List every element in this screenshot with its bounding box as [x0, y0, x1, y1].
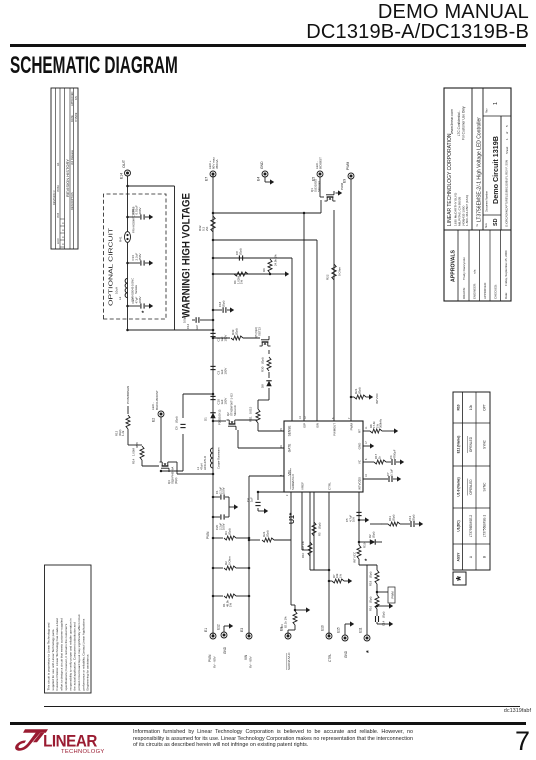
svg-text:(Opt): (Opt)	[371, 532, 375, 538]
svg-text:DESCRIPTION: DESCRIPTION	[70, 192, 74, 210]
resistor R39	[231, 336, 243, 340]
wire	[183, 393, 213, 395]
capacitor C20	[213, 516, 220, 518]
svg-text:B: B	[482, 556, 486, 558]
wire	[243, 337, 260, 339]
svg-text:10k: 10k	[469, 405, 473, 411]
svg-text:FRN-H530HPCS09W8: FRN-H530HPCS09W8	[132, 206, 136, 233]
svg-text:R16: R16	[369, 605, 373, 611]
resistor RS1	[256, 409, 260, 423]
svg-text:HC9-470-R: HC9-470-R	[203, 456, 207, 470]
footer disclaimer	[133, 729, 413, 749]
svg-text:GND: GND	[344, 650, 348, 658]
svg-text:0805: 0805	[135, 442, 139, 448]
svg-text:15: 15	[280, 428, 283, 431]
svg-text:E15: E15	[337, 627, 341, 633]
wire	[268, 388, 270, 400]
wire	[228, 497, 230, 517]
svg-text:R41: R41	[119, 236, 123, 242]
terminal E11	[364, 635, 370, 641]
svg-text:RS1: RS1	[249, 416, 253, 422]
svg-text:E11: E11	[359, 627, 363, 633]
capacitor C17	[128, 305, 141, 307]
svg-text:C9: C9	[175, 426, 179, 430]
capacitor C12	[200, 319, 213, 321]
svg-text:PCB: PCB	[57, 213, 60, 218]
diode D1	[210, 413, 215, 418]
transistor Q1	[327, 196, 334, 198]
ground	[350, 621, 354, 626]
wire	[213, 212, 321, 214]
svg-text:1: 1	[493, 102, 499, 105]
svg-text:17: 17	[365, 441, 368, 444]
wire	[212, 174, 214, 636]
wire	[301, 492, 303, 550]
resistor R42	[211, 216, 215, 232]
ground	[397, 476, 401, 481]
ground	[389, 621, 393, 626]
Linear Technology logo	[10, 726, 122, 758]
svg-text:E9: E9	[343, 179, 347, 183]
svg-text:Rev: Rev	[486, 108, 489, 113]
svg-text:A: A	[469, 555, 473, 558]
resistor R11	[382, 523, 388, 525]
svg-text:R9: R9	[262, 268, 266, 272]
svg-text:www.linear.com: www.linear.com	[450, 109, 454, 134]
wire	[270, 257, 292, 259]
wire	[174, 186, 176, 330]
svg-text:R5: R5	[318, 532, 322, 536]
svg-text:7/15/09: 7/15/09	[74, 112, 78, 122]
resistor R7	[329, 580, 332, 582]
svg-text:Cooper Bussmann: Cooper Bussmann	[217, 447, 221, 469]
resistor R17	[363, 461, 374, 463]
svg-text:*: *	[366, 650, 373, 653]
capacitor C15	[128, 216, 141, 218]
resistor R6	[234, 272, 248, 276]
svg-text:12: 12	[304, 416, 307, 419]
resistor R8	[363, 430, 370, 432]
svg-text:LT3756EMSE-1: LT3756EMSE-1	[482, 515, 486, 538]
capacitor C1	[213, 496, 220, 498]
svg-text:3rd Release: 3rd Release	[70, 149, 74, 165]
capacitor C3	[210, 369, 215, 371]
wire	[359, 519, 365, 521]
svg-text:(Opt): (Opt)	[391, 515, 395, 521]
svg-text:D1: D1	[204, 417, 208, 421]
svg-text:R22: R22	[326, 274, 330, 280]
svg-text:For Customer Use Only: For Customer Use Only	[462, 106, 466, 140]
resistor R9	[268, 259, 272, 273]
capacitor C14	[375, 616, 377, 622]
svg-text:Trudy Raczynski: Trudy Raczynski	[462, 257, 466, 280]
svg-text:(Opt): (Opt)	[235, 328, 239, 335]
node SW	[212, 420, 215, 423]
svg-text:1%: 1%	[229, 602, 233, 607]
svg-text:GND: GND	[358, 442, 362, 450]
resistor R5	[312, 522, 316, 536]
wire	[377, 605, 389, 607]
wire	[238, 419, 259, 421]
capacitor C4	[257, 492, 259, 500]
svg-text:PCBA: PCBA	[57, 185, 60, 192]
svg-text:n/a: n/a	[473, 269, 477, 274]
svg-text:8V - 80V: 8V - 80V	[249, 656, 253, 668]
svg-text:GATE: GATE	[288, 444, 292, 452]
wire	[295, 609, 306, 611]
svg-text:(Opt): (Opt)	[369, 597, 373, 603]
ground	[365, 517, 369, 522]
svg-text:11: 11	[365, 426, 368, 429]
wire	[257, 423, 259, 431]
resistor R2	[213, 567, 223, 569]
svg-text:300kHz: 300kHz	[379, 418, 383, 428]
svg-text:GND: GND	[223, 646, 227, 654]
header rule	[10, 44, 526, 47]
svg-text:E10: E10	[321, 625, 325, 631]
svg-text:0.1uF: 0.1uF	[389, 469, 393, 476]
ground	[400, 459, 404, 464]
capacitor C18	[213, 309, 222, 311]
svg-text:2%: 2%	[205, 226, 209, 231]
svg-text:WARNING! HIGH VOLTAGE: WARNING! HIGH VOLTAGE	[181, 193, 193, 318]
svg-text:*: *	[289, 513, 296, 516]
capacitor C10	[210, 399, 215, 401]
svg-text:1.2k: 1.2k	[121, 430, 125, 436]
svg-text:(Opt): (Opt)	[369, 572, 373, 578]
svg-text:CHECKED:: CHECKED:	[494, 284, 498, 299]
resistor R14	[140, 446, 144, 460]
svg-text:GLP: GLP	[195, 325, 199, 330]
inductor L1	[211, 448, 214, 468]
svg-text:SHDN/UVLO: SHDN/UVLO	[287, 652, 291, 670]
svg-text:E3: E3	[240, 628, 244, 632]
capacitor C6	[391, 459, 393, 465]
svg-text:100V: 100V	[138, 296, 142, 303]
wire	[128, 329, 214, 331]
capacitor C2	[210, 336, 215, 338]
wire	[366, 565, 368, 635]
wire	[268, 350, 270, 354]
svg-text:8: 8	[332, 417, 335, 419]
svg-text:C14: C14	[382, 620, 386, 626]
svg-text:LINEAR TECHNOLOGY CORPORATION: LINEAR TECHNOLOGY CORPORATION	[447, 133, 453, 226]
svg-text:350mA: 350mA	[215, 159, 219, 169]
ground	[363, 445, 370, 447]
asterisk legend	[453, 572, 466, 585]
terminal E5 LED-	[317, 171, 323, 177]
wire	[310, 569, 329, 571]
resistor R18	[375, 570, 379, 584]
wire	[320, 196, 324, 198]
net arrow	[348, 578, 352, 583]
svg-text:4700pF: 4700pF	[392, 449, 396, 459]
ground	[306, 607, 310, 612]
svg-text:TECHNOLOGY: TECHNOLOGY	[61, 749, 105, 755]
wire	[377, 623, 389, 625]
diode D8	[266, 381, 271, 386]
svg-text:PVIN: PVIN	[208, 654, 212, 662]
svg-text:E14: E14	[120, 173, 124, 179]
svg-text:(Opt): (Opt)	[318, 523, 322, 529]
wire	[270, 273, 285, 275]
capacitor C8	[238, 255, 240, 260]
svg-text:Size: Size	[485, 223, 488, 228]
resistor R21a	[351, 396, 354, 398]
svg-text:ISP: ISP	[303, 423, 307, 428]
ground	[149, 260, 153, 265]
svg-text:D8: D8	[261, 384, 265, 388]
svg-text:13: 13	[299, 416, 302, 419]
svg-text:Friday, September 25, 2009: Friday, September 25, 2009	[504, 250, 508, 286]
resistor R3	[213, 537, 223, 539]
svg-text:E12: E12	[217, 624, 221, 630]
wire	[258, 399, 269, 401]
resistor R1	[213, 595, 223, 597]
resistor R10	[308, 542, 312, 556]
wire	[213, 257, 270, 259]
capacitor C5	[356, 515, 361, 517]
svg-text:1M 1%: 1M 1%	[301, 541, 305, 550]
terminal E6 SHDN	[285, 633, 291, 639]
svg-text:Date:: Date:	[504, 292, 508, 299]
svg-text:SHDN/UVLO: SHDN/UVLO	[291, 474, 295, 490]
resistor R13	[127, 406, 129, 414]
svg-text:G:\ORCAD\INCAPTURE\1319B\1319B: G:\ORCAD\INCAPTURE\1319B\1319B (F), REV …	[505, 160, 509, 227]
transistor Q2	[229, 423, 236, 425]
terminal E1 PVIN	[210, 633, 216, 639]
svg-text:OPENLED: OPENLED	[469, 479, 473, 495]
svg-text:Sumida: Sumida	[134, 285, 138, 294]
svg-text:LT3756EMSE-2: LT3756EMSE-2	[469, 515, 473, 538]
svg-text:5: 5	[505, 125, 509, 127]
wire	[288, 629, 295, 631]
svg-text:PVIN: PVIN	[206, 531, 210, 539]
assembly options table	[453, 392, 490, 570]
svg-text:0 Ohm: 0 Ohm	[228, 556, 232, 565]
svg-text:100V: 100V	[222, 487, 226, 494]
svg-text:ENGINEER:: ENGINEER:	[473, 283, 477, 299]
wire	[161, 470, 183, 472]
terminal E3 VIN	[246, 633, 252, 639]
doc number	[0, 708, 531, 714]
ground	[285, 271, 289, 276]
net label PWM	[388, 587, 395, 603]
svg-text:Engineering for assistance.: Engineering for assistance.	[86, 654, 90, 691]
terminal E15 GND	[342, 635, 348, 641]
svg-text:U1-9 (Name): U1-9 (Name)	[457, 477, 461, 496]
ground	[149, 303, 153, 308]
svg-text:ECO: ECO	[57, 239, 60, 244]
svg-text:R14: R14	[132, 458, 136, 464]
wire	[350, 179, 352, 421]
svg-text:(Opt): (Opt)	[239, 248, 243, 255]
svg-text:(Opt): (Opt)	[411, 515, 415, 521]
resistor R16	[375, 595, 379, 609]
title block	[444, 88, 511, 301]
svg-text:BUCK-BOOST: BUCK-BOOST	[155, 390, 159, 410]
transistor Q5	[262, 341, 269, 343]
svg-text:100V: 100V	[223, 398, 227, 405]
section title	[10, 52, 178, 80]
wire	[303, 213, 305, 421]
svg-text:10uH: 10uH	[115, 287, 119, 294]
wire	[171, 461, 178, 463]
terminal E14 OUT	[125, 170, 131, 176]
diode D2	[359, 541, 370, 543]
svg-text:VIN: VIN	[244, 654, 248, 660]
svg-text:SS: SS	[358, 477, 362, 481]
svg-text:6: 6	[365, 458, 368, 460]
wire	[376, 609, 378, 616]
terminal E2	[158, 411, 164, 417]
wire	[213, 420, 226, 422]
wire	[313, 492, 315, 570]
svg-text:ISN: ISN	[316, 423, 320, 428]
svg-text:16: 16	[280, 445, 283, 448]
svg-text:(Opt): (Opt)	[266, 530, 270, 537]
transistor Q4	[162, 465, 169, 467]
svg-text:GND: GND	[260, 161, 264, 169]
wire	[229, 506, 234, 508]
wire	[213, 337, 230, 339]
resistor R4	[293, 611, 297, 625]
page number	[480, 726, 530, 757]
svg-text:APPROVALS: APPROVALS	[451, 250, 457, 282]
svg-text:L2: L2	[118, 296, 122, 300]
svg-text:of: of	[505, 131, 509, 134]
wire	[127, 429, 129, 445]
wire	[160, 417, 162, 462]
svg-text:8V - 80V: 8V - 80V	[213, 656, 217, 668]
resistor R22	[332, 264, 336, 280]
svg-text:1uF: 1uF	[249, 497, 253, 502]
svg-text:82.1k 1%: 82.1k 1%	[283, 616, 287, 628]
wire	[249, 475, 284, 477]
wire	[212, 375, 214, 377]
svg-text:DRAWN:: DRAWN:	[462, 287, 466, 299]
svg-text:OPENLED: OPENLED	[469, 436, 473, 452]
resistor R30	[267, 357, 271, 371]
svg-text:(Opt): (Opt)	[261, 357, 265, 364]
svg-text:SiliconiX: SiliconiX	[317, 181, 321, 192]
wire	[258, 491, 284, 493]
svg-text:RT: RT	[358, 429, 362, 433]
wire	[248, 476, 250, 636]
svg-text:2: 2	[286, 494, 289, 496]
capacitor C9	[180, 427, 185, 429]
terminal E9 PWM	[348, 173, 354, 179]
svg-text:1-800-434-0507 (FAX): 1-800-434-0507 (FAX)	[465, 195, 469, 226]
svg-text:SOT23: SOT23	[257, 327, 261, 336]
svg-text:SYNC: SYNC	[482, 482, 486, 492]
optional circuit box	[104, 194, 167, 319]
svg-text:E7: E7	[205, 177, 209, 181]
svg-text:E4: E4	[257, 177, 261, 181]
ground	[389, 603, 393, 608]
wire	[319, 177, 321, 197]
wire	[302, 549, 310, 551]
wire	[328, 492, 330, 636]
svg-text:(Opt): (Opt)	[228, 528, 232, 535]
svg-text:PWM: PWM	[390, 591, 394, 599]
svg-text:KS: KS	[74, 96, 78, 100]
svg-text:R10: R10	[301, 552, 305, 558]
wire	[212, 405, 214, 407]
wire	[238, 447, 284, 449]
svg-text:E1: E1	[204, 628, 208, 632]
svg-text:100V: 100V	[223, 368, 227, 375]
svg-text:24.9k 1%: 24.9k 1%	[274, 254, 278, 266]
wire	[316, 240, 318, 421]
svg-text:10V: 10V	[352, 517, 356, 522]
capacitor C7	[363, 478, 388, 480]
svg-text:(Opt): (Opt)	[382, 612, 386, 618]
svg-text:REVISION #: REVISION #	[52, 190, 56, 205]
capacitor C13	[410, 521, 412, 527]
svg-text:R10: R10	[457, 404, 461, 410]
svg-text:Demo Circuit 1319B: Demo Circuit 1319B	[491, 136, 500, 204]
svg-text:VREF: VREF	[301, 482, 305, 490]
svg-text:4: 4	[280, 474, 283, 476]
wire	[182, 434, 184, 471]
svg-text:(Opt): (Opt)	[174, 478, 178, 484]
svg-text:R18: R18	[369, 580, 373, 586]
wire	[127, 176, 129, 330]
wire	[141, 460, 143, 466]
terminal E12 GND	[221, 632, 227, 638]
ground	[270, 179, 274, 184]
svg-text:INTVCC: INTVCC	[375, 393, 379, 404]
svg-text:U1(DC): U1(DC)	[457, 520, 461, 531]
svg-text:1: 1	[505, 138, 509, 140]
svg-text:100V: 100V	[222, 523, 226, 530]
wire	[213, 239, 317, 241]
svg-text:LINEAR: LINEAR	[43, 733, 98, 751]
svg-text:OPT: OPT	[482, 404, 486, 411]
wire	[213, 273, 270, 275]
op-amp U1 (LT3756 controller IC)	[284, 421, 363, 492]
capacitor C16	[128, 262, 141, 264]
svg-text:E2: E2	[152, 418, 156, 422]
svg-text:BCKBST: BCKBST	[319, 157, 323, 169]
svg-text:PWMOUT: PWMOUT	[333, 423, 337, 436]
svg-text:*: *	[142, 310, 148, 313]
wire	[367, 564, 377, 566]
svg-text:SD: SD	[493, 218, 499, 226]
wire	[309, 492, 311, 570]
wire	[333, 210, 335, 421]
svg-text:0 Ohm: 0 Ohm	[338, 266, 342, 276]
ground	[264, 508, 268, 513]
svg-text:200V: 200V	[138, 207, 142, 214]
svg-text:OUT: OUT	[122, 159, 126, 168]
svg-text:1.00M: 1.00M	[132, 448, 136, 456]
wire	[44, 706, 520, 708]
svg-text:(Opt): (Opt)	[175, 416, 179, 423]
wire	[290, 492, 292, 605]
svg-text:1%: 1%	[338, 574, 342, 578]
svg-text:PWM: PWM	[350, 423, 354, 431]
resistor R21	[249, 539, 260, 541]
net arrow INTVCC	[369, 394, 373, 399]
svg-text:VC: VC	[358, 459, 362, 464]
svg-text:Sheet: Sheet	[505, 146, 509, 154]
svg-text:*: *	[365, 558, 371, 561]
svg-text:Document Number: Document Number	[486, 191, 489, 212]
svg-text:(Opt): (Opt)	[358, 387, 362, 394]
svg-text:SiliconiX: SiliconiX	[233, 405, 237, 416]
